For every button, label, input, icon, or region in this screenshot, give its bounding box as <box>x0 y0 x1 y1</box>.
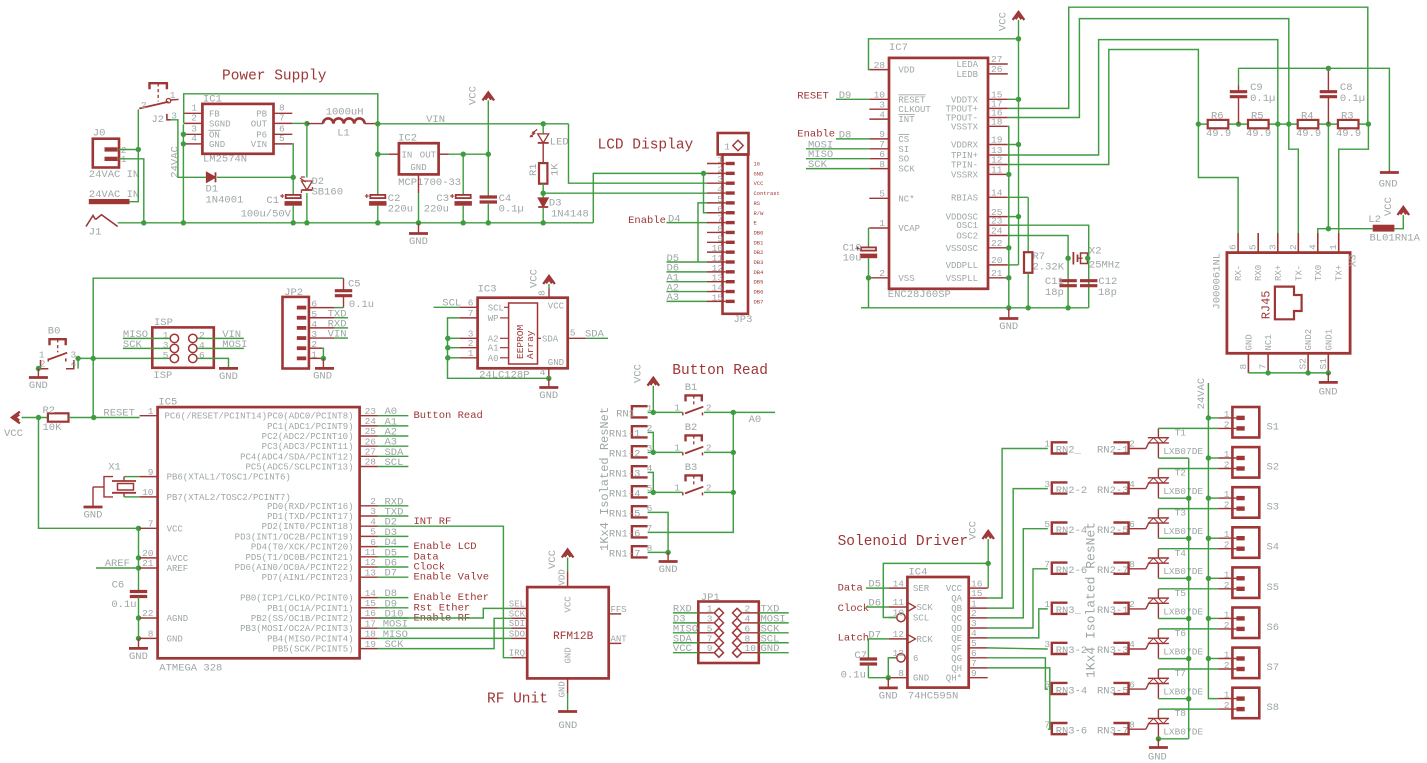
svg-text:LXB07DE: LXB07DE <box>1163 606 1203 617</box>
svg-text:B2: B2 <box>685 422 698 434</box>
label Enable Valve <box>414 572 490 584</box>
svg-text:PB4(MISO/PCINT4): PB4(MISO/PCINT4) <box>267 634 353 644</box>
svg-text:GND: GND <box>564 647 574 663</box>
net RXD <box>378 496 409 508</box>
svg-text:IC1: IC1 <box>203 93 222 105</box>
junction <box>1006 275 1011 280</box>
junction <box>1206 415 1211 420</box>
svg-text:4: 4 <box>1307 244 1318 250</box>
svg-text:SCK: SCK <box>509 609 526 619</box>
junction <box>1016 214 1021 219</box>
connector S7 <box>1218 648 1279 679</box>
net RESET wire <box>69 408 140 420</box>
svg-text:QG: QG <box>951 654 962 664</box>
net A1 <box>378 416 409 428</box>
svg-text:S5: S5 <box>1267 582 1280 594</box>
junction <box>304 121 309 126</box>
power VCC at button read <box>633 364 659 412</box>
junction <box>1206 576 1211 581</box>
svg-text:3: 3 <box>311 329 317 340</box>
svg-text:5: 5 <box>879 189 885 200</box>
net SCL <box>378 457 409 469</box>
net TXD <box>378 507 409 519</box>
svg-text:JP1: JP1 <box>701 592 720 604</box>
junction <box>75 356 80 361</box>
svg-text:8: 8 <box>898 668 904 679</box>
title Solenoid Driver <box>838 534 969 550</box>
svg-text:19: 19 <box>365 639 377 650</box>
svg-text:MOSI: MOSI <box>222 339 247 351</box>
svg-text:11: 11 <box>893 597 905 608</box>
svg-text:VCC: VCC <box>547 550 559 569</box>
svg-text:R2: R2 <box>43 405 56 417</box>
junction <box>1206 455 1211 460</box>
wire Enable RF to RFM12B SEL <box>378 608 512 618</box>
svg-text:GND: GND <box>410 163 426 173</box>
svg-text:T6: T6 <box>1175 628 1187 639</box>
junction <box>445 345 450 350</box>
svg-text:3: 3 <box>1044 479 1050 490</box>
label Enable RF <box>414 613 471 625</box>
svg-text:5: 5 <box>570 328 576 339</box>
svg-text:2.32K: 2.32K <box>1033 262 1065 274</box>
svg-text:SCK: SCK <box>123 339 143 351</box>
inductor L1 1000uH <box>307 107 378 140</box>
resistor R7 2.32K <box>1008 197 1065 307</box>
svg-text:5: 5 <box>1044 679 1050 690</box>
label Rst Ether <box>414 602 471 614</box>
svg-text:DB1: DB1 <box>754 239 765 246</box>
svg-text:1: 1 <box>170 90 176 101</box>
wire 24VAC to S7 <box>1208 658 1218 660</box>
svg-text:24: 24 <box>991 226 1003 237</box>
wire resistor row <box>1198 123 1368 125</box>
svg-text:RN2-4: RN2-4 <box>1056 525 1088 537</box>
connector S4 <box>1218 527 1279 558</box>
svg-text:SCL: SCL <box>488 303 504 313</box>
ground <box>539 378 558 402</box>
svg-text:2: 2 <box>1288 244 1299 250</box>
svg-text:RN2-3: RN2-3 <box>1097 485 1129 497</box>
svg-text:SO: SO <box>898 155 909 165</box>
net MISO at JP1 <box>673 623 698 635</box>
junction <box>181 220 186 225</box>
svg-text:S8: S8 <box>1267 702 1280 714</box>
junction <box>546 376 551 381</box>
svg-text:24VAC: 24VAC <box>1196 378 1208 410</box>
junction <box>886 675 891 680</box>
svg-text:PC1(ADC1/PCINT9): PC1(ADC1/PCINT9) <box>267 422 353 432</box>
wire IC4 output QE to resnet <box>988 609 1048 638</box>
junction <box>36 415 41 420</box>
svg-text:GND: GND <box>913 674 929 684</box>
svg-text:1: 1 <box>879 218 885 229</box>
wire IC4 output QC to resnet <box>988 529 1048 618</box>
svg-text:RN1-5: RN1-5 <box>609 509 641 521</box>
junction <box>461 220 466 225</box>
wire IC4 output QH to resnet <box>988 668 1050 729</box>
switch B0 <box>39 326 77 370</box>
junction <box>136 565 141 570</box>
svg-text:DB3: DB3 <box>754 259 764 266</box>
svg-text:Button Read: Button Read <box>672 363 768 379</box>
svg-text:SGND: SGND <box>209 119 231 129</box>
svg-text:10: 10 <box>142 487 154 498</box>
junction <box>1286 121 1291 126</box>
svg-text:GND: GND <box>558 681 568 697</box>
svg-text:Clock: Clock <box>838 603 870 615</box>
svg-text:RN2-7: RN2-7 <box>1097 565 1129 577</box>
wire VSSTX VSSRX VSSOSC VSSPLL gnd column <box>1008 126 1009 307</box>
diode D2 SB160 <box>300 124 343 223</box>
svg-text:X1: X1 <box>108 462 121 474</box>
svg-text:C7: C7 <box>854 650 867 662</box>
junction <box>136 526 141 531</box>
svg-text:2: 2 <box>1224 540 1230 551</box>
svg-text:14: 14 <box>991 188 1003 199</box>
svg-text:NC1: NC1 <box>1264 334 1274 350</box>
svg-text:1: 1 <box>468 348 474 359</box>
svg-text:2: 2 <box>1224 419 1230 430</box>
capacitor C12 18p <box>1080 276 1117 299</box>
net VIN wire <box>378 114 569 126</box>
svg-text:VCC: VCC <box>529 269 541 288</box>
triac T6 LX807DE <box>1148 628 1204 659</box>
svg-text:D7: D7 <box>385 568 398 580</box>
title LCD Display <box>598 138 694 154</box>
label RESET net D9 <box>797 90 869 103</box>
wire LCD Contrast net <box>543 192 707 194</box>
svg-text:8: 8 <box>148 629 154 640</box>
connector JP3 <box>707 133 780 326</box>
net D6 <box>378 558 409 570</box>
svg-text:MCP1700-33: MCP1700-33 <box>398 177 461 189</box>
connector RJ45 X3 <box>1212 233 1360 373</box>
wire B2 row <box>648 451 734 453</box>
svg-text:5: 5 <box>311 309 317 320</box>
svg-text:7: 7 <box>279 113 285 124</box>
IC MCP1700-33 IC2 <box>389 133 461 194</box>
svg-text:VCC: VCC <box>4 428 23 440</box>
svg-text:QA: QA <box>951 594 962 604</box>
svg-text:25MHz: 25MHz <box>1089 260 1121 272</box>
svg-text:4: 4 <box>311 319 317 330</box>
net SDA at JP1 <box>673 633 698 645</box>
svg-text:RESET: RESET <box>898 95 926 105</box>
svg-text:TX-: TX- <box>1294 265 1304 281</box>
switch B1 <box>674 382 711 415</box>
capacitor C5 0.1u <box>335 278 374 311</box>
junction <box>1196 121 1201 126</box>
wire ISP pin6 to ground <box>198 358 229 368</box>
junction <box>1326 370 1331 375</box>
junction <box>1265 370 1270 375</box>
svg-text:T2: T2 <box>1175 468 1187 479</box>
junction <box>1186 576 1191 581</box>
svg-text:7: 7 <box>1044 719 1050 730</box>
svg-text:C1: C1 <box>266 195 279 207</box>
wire OSC1 to X2 and C12 <box>1008 225 1089 308</box>
wire 24VAC to S4 <box>1208 537 1218 539</box>
junction <box>1206 656 1211 661</box>
svg-text:18p: 18p <box>1098 287 1117 299</box>
net D5 <box>378 547 409 559</box>
net D3 <box>378 527 409 539</box>
ground <box>409 223 428 248</box>
crystal X2 25MHz <box>1073 246 1120 272</box>
junction <box>1206 536 1211 541</box>
junction <box>1186 496 1191 501</box>
wire B0 to ground <box>38 368 40 370</box>
triac T2 LX807DE <box>1148 468 1204 499</box>
svg-text:4: 4 <box>191 133 197 144</box>
svg-text:9: 9 <box>707 643 713 654</box>
junction <box>375 220 380 225</box>
svg-text:ATMEGA 328: ATMEGA 328 <box>159 663 222 675</box>
svg-text:DB4: DB4 <box>754 269 765 276</box>
svg-text:2: 2 <box>141 100 147 111</box>
wire 24VAC to S5 <box>1208 577 1218 579</box>
svg-text:RF Unit: RF Unit <box>487 692 548 708</box>
svg-text:SER: SER <box>913 584 930 594</box>
svg-text:0.1u: 0.1u <box>841 670 866 682</box>
svg-text:S1: S1 <box>1318 358 1329 370</box>
junction <box>541 191 546 196</box>
wire triac gnd chain vertical <box>1188 458 1190 739</box>
svg-text:SCL: SCL <box>385 457 404 469</box>
wire D1 to VIN pin5 <box>217 144 293 177</box>
svg-text:LXB07DE: LXB07DE <box>1163 486 1203 497</box>
svg-text:13: 13 <box>365 567 377 578</box>
wire TX0 center tap <box>1318 124 1373 233</box>
svg-text:LXB07DE: LXB07DE <box>1163 526 1203 537</box>
resistor network RN1 <box>598 403 653 561</box>
wire IC4 output QG to resnet <box>988 658 1048 689</box>
svg-text:6: 6 <box>913 654 918 664</box>
svg-text:VDD: VDD <box>558 569 568 585</box>
ground <box>1379 170 1399 191</box>
net RXD at JP1 <box>673 603 698 615</box>
wire J2 pin2 down <box>137 110 139 150</box>
junction <box>375 121 380 126</box>
svg-text:24VAC IN: 24VAC IN <box>89 169 139 181</box>
label Enable net D8 <box>797 128 869 141</box>
svg-text:RS: RS <box>754 200 761 207</box>
svg-text:GND: GND <box>209 140 225 150</box>
junction <box>651 450 656 455</box>
wire IC1 feedback top rail <box>184 94 378 124</box>
svg-text:PD0(RXD/PCINT16): PD0(RXD/PCINT16) <box>267 502 353 512</box>
svg-text:LXB07DE: LXB07DE <box>1163 687 1203 698</box>
svg-text:S1: S1 <box>1267 421 1280 433</box>
triac T4 LX807DE <box>1148 548 1204 579</box>
svg-text:28: 28 <box>365 457 377 468</box>
svg-text:6: 6 <box>1228 244 1239 250</box>
connector JP1 <box>698 592 759 663</box>
connector S2 <box>1218 447 1279 478</box>
net VCC at JP1 <box>673 643 698 655</box>
svg-text:L2: L2 <box>1368 214 1381 226</box>
label 24VAC IN bar <box>89 189 139 204</box>
power VCC at L2 <box>1383 197 1409 219</box>
net MOSI wire at ISP <box>198 339 248 351</box>
svg-text:Enable Valve: Enable Valve <box>414 572 490 584</box>
svg-text:4: 4 <box>71 359 77 370</box>
svg-text:RN3-2: RN3-2 <box>1056 645 1088 657</box>
power VCC at RFM12B <box>547 550 573 572</box>
svg-text:8: 8 <box>537 290 548 296</box>
net MOSI at IC7 <box>806 139 869 151</box>
svg-text:VCC: VCC <box>167 524 184 534</box>
svg-text:VSS: VSS <box>898 274 914 284</box>
junction <box>541 220 546 225</box>
svg-text:4: 4 <box>879 109 885 120</box>
svg-text:PB6(XTAL1/TOSC1/PCINT6): PB6(XTAL1/TOSC1/PCINT6) <box>167 473 291 483</box>
wire IC4 output QB to resnet <box>988 489 1048 608</box>
svg-text:JP3: JP3 <box>734 314 753 326</box>
svg-text:RBIAS: RBIAS <box>951 193 978 203</box>
junction <box>1186 696 1191 701</box>
svg-text:AVCC: AVCC <box>167 554 189 564</box>
title RF Unit <box>487 692 548 708</box>
net A3 <box>667 292 708 304</box>
junction <box>461 152 466 157</box>
wire 24VAC to S3 <box>1208 497 1218 499</box>
svg-text:SDA: SDA <box>542 334 559 344</box>
svg-text:X3: X3 <box>1348 254 1360 267</box>
svg-text:GND: GND <box>754 170 765 177</box>
svg-text:VIN: VIN <box>251 140 267 150</box>
svg-text:T5: T5 <box>1175 588 1187 599</box>
net GND at JP1 <box>759 643 789 655</box>
capacitor C9 0.1u <box>1230 68 1276 124</box>
net D3 at JP1 <box>673 613 698 625</box>
connector S3 <box>1218 487 1279 518</box>
svg-text:VIN: VIN <box>328 329 347 341</box>
ground <box>129 638 148 663</box>
junction <box>181 132 186 137</box>
wire IC7 VDD to VCC <box>869 39 1019 70</box>
svg-text:A3: A3 <box>667 292 680 304</box>
switch J2 <box>139 83 178 126</box>
svg-text:QF: QF <box>951 644 962 654</box>
svg-text:CS: CS <box>898 135 909 145</box>
svg-text:1: 1 <box>1224 690 1230 701</box>
svg-text:S3: S3 <box>1267 502 1280 514</box>
svg-text:DB7: DB7 <box>754 298 764 305</box>
svg-text:A1: A1 <box>488 344 499 354</box>
svg-text:PC6(/RESET/PCINT14)PC0(ADC0/PC: PC6(/RESET/PCINT14)PC0(ADC0/PCINT8) <box>164 412 353 422</box>
title Power Supply <box>222 69 327 85</box>
junction <box>445 336 450 341</box>
svg-text:1: 1 <box>1224 569 1230 580</box>
svg-text:IC5: IC5 <box>158 397 177 409</box>
junction <box>416 220 421 225</box>
wire X1 pins <box>124 477 140 497</box>
svg-text:PB0(ICP1/CLKO/PCINT0): PB0(ICP1/CLKO/PCINT0) <box>240 594 353 604</box>
junction <box>91 415 96 420</box>
wire RN1 pin2 drop <box>648 432 654 452</box>
net D4 <box>378 537 409 549</box>
svg-text:1: 1 <box>121 154 127 165</box>
svg-text:0.1u: 0.1u <box>349 299 374 311</box>
svg-text:PD3(INT1/OC2B/PCINT19): PD3(INT1/OC2B/PCINT19) <box>235 532 354 542</box>
capacitor C8 0.1u <box>1320 68 1365 124</box>
ground <box>1319 373 1338 399</box>
svg-text:14: 14 <box>893 578 905 589</box>
net VIN wire at ISP <box>198 329 244 341</box>
svg-text:1: 1 <box>1044 599 1050 610</box>
wire IC1 gnd pins to rail <box>182 124 184 223</box>
svg-text:SDA: SDA <box>585 328 605 340</box>
wire T7 bottom to gnd chain <box>1158 698 1188 700</box>
svg-text:RN3-5: RN3-5 <box>1097 685 1129 697</box>
wire LCD VCC net from VIN <box>569 124 708 183</box>
svg-text:RN1-1: RN1-1 <box>609 429 641 441</box>
wire TPOUT- to R4 left and TX- <box>1008 19 1299 233</box>
svg-text:10u: 10u <box>843 253 862 265</box>
IC ATMEGA 328 IC5 <box>140 397 378 675</box>
junction <box>1366 121 1371 126</box>
svg-text:Enable: Enable <box>628 215 666 227</box>
svg-text:PD6(AIN0/OC0A/PCINT22): PD6(AIN0/OC0A/PCINT22) <box>235 563 354 573</box>
svg-text:PB2(SS/OC1B/PCINT2): PB2(SS/OC1B/PCINT2) <box>251 614 354 624</box>
svg-text:GND: GND <box>167 634 183 644</box>
wire B3 row <box>648 491 734 493</box>
wire IC4 output QA to resnet <box>988 449 1048 599</box>
svg-text:LXB07DE: LXB07DE <box>1163 446 1203 457</box>
svg-text:J000061NL: J000061NL <box>1212 253 1224 310</box>
wire 24VAC to S6 <box>1208 617 1218 619</box>
svg-text:6: 6 <box>199 350 205 361</box>
svg-text:PC3(ADC3/PCINT11): PC3(ADC3/PCINT11) <box>262 442 354 452</box>
svg-text:PB: PB <box>256 109 267 119</box>
junction <box>136 636 141 641</box>
ground rail wire <box>118 222 594 224</box>
svg-text:JP2: JP2 <box>284 287 303 299</box>
net D5 <box>667 253 708 265</box>
junction <box>701 171 706 176</box>
svg-text:FFS: FFS <box>611 605 627 615</box>
junction <box>136 555 141 560</box>
wire IC4 output QD to resnet <box>988 569 1048 628</box>
svg-text:TPIN-: TPIN- <box>951 161 978 171</box>
wire IC3 WP A2 A1 A0 to gnd <box>448 318 549 378</box>
switch B3 <box>674 462 711 495</box>
svg-text:D4: D4 <box>668 214 681 226</box>
wire T5 bottom to gnd chain <box>1158 618 1188 620</box>
svg-text:B3: B3 <box>685 462 698 474</box>
svg-text:SDO: SDO <box>509 629 525 639</box>
wire S7 pin2 to T7 <box>1158 668 1218 670</box>
svg-text:RJ45: RJ45 <box>1260 290 1274 319</box>
resistor R5 49.9 <box>1246 111 1271 140</box>
triac T1 LX807DE <box>1148 428 1204 459</box>
svg-text:RX-: RX- <box>1234 265 1244 281</box>
junction <box>1326 121 1331 126</box>
svg-text:SDI: SDI <box>509 619 525 629</box>
net SCL at JP1 <box>759 633 789 645</box>
IC 24LC128P IC3 <box>459 284 586 382</box>
svg-text:PB1(OC1A/PCINT1): PB1(OC1A/PCINT1) <box>267 604 353 614</box>
net A2 <box>378 427 409 439</box>
connector S8 <box>1218 688 1279 719</box>
svg-text:NC*: NC* <box>898 194 914 204</box>
ground at RFM12B <box>558 694 577 732</box>
connector S1 <box>1218 407 1279 438</box>
junction <box>136 615 141 620</box>
wire S2 pin2 to T2 <box>1158 468 1218 470</box>
